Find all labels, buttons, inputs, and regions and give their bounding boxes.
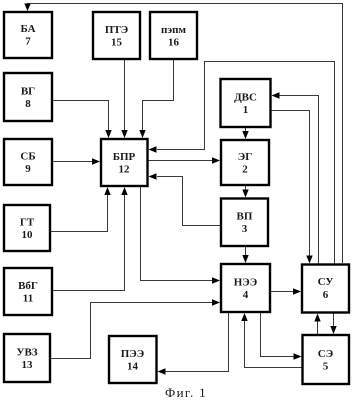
- svg-text:3: 3: [242, 223, 248, 235]
- svg-text:ПЭЭ: ПЭЭ: [121, 348, 144, 360]
- svg-text:СЭ: СЭ: [318, 348, 333, 360]
- svg-text:15: 15: [111, 37, 123, 49]
- svg-text:ДВС: ДВС: [234, 92, 257, 104]
- svg-text:Фиг. 1: Фиг. 1: [165, 385, 207, 400]
- svg-text:ВП: ВП: [237, 211, 253, 223]
- svg-text:16: 16: [168, 37, 180, 49]
- svg-text:2: 2: [242, 164, 248, 176]
- svg-text:9: 9: [25, 163, 31, 175]
- svg-text:БА: БА: [20, 23, 35, 35]
- svg-text:11: 11: [23, 293, 33, 305]
- svg-text:4: 4: [243, 289, 249, 301]
- svg-text:ГТ: ГТ: [20, 217, 35, 229]
- svg-text:1: 1: [243, 104, 249, 116]
- svg-text:8: 8: [25, 98, 31, 110]
- svg-text:ВбГ: ВбГ: [18, 280, 38, 292]
- svg-text:СБ: СБ: [20, 151, 35, 163]
- svg-text:13: 13: [22, 359, 34, 371]
- svg-text:5: 5: [323, 361, 329, 373]
- svg-text:ПТЭ: ПТЭ: [105, 24, 128, 36]
- svg-text:ВГ: ВГ: [21, 86, 35, 98]
- svg-text:10: 10: [22, 229, 34, 241]
- svg-text:БПР: БПР: [113, 151, 136, 163]
- svg-text:6: 6: [323, 289, 329, 301]
- svg-text:14: 14: [127, 361, 139, 373]
- svg-text:12: 12: [119, 164, 131, 176]
- svg-text:УВЗ: УВЗ: [16, 347, 37, 359]
- svg-text:пэпм: пэпм: [161, 24, 186, 36]
- svg-text:ЭГ: ЭГ: [238, 151, 252, 163]
- svg-text:7: 7: [25, 36, 31, 48]
- svg-text:НЭЭ: НЭЭ: [234, 277, 257, 289]
- svg-text:СУ: СУ: [318, 276, 334, 288]
